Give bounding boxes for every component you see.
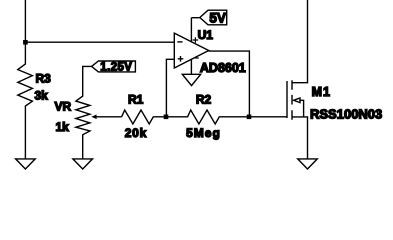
wire: V+ supply	[190, 18, 192, 43]
flag 5V wire	[191, 17, 199, 19]
flag 5V	[200, 10, 227, 25]
wire: node B to gate	[249, 116, 287, 118]
resistor R1	[122, 110, 166, 124]
wire: op-amp output	[209, 51, 250, 117]
svg-text:R3: R3	[36, 72, 52, 86]
potentiometer VR	[76, 90, 90, 159]
svg-text:M1: M1	[312, 85, 331, 99]
ground left	[16, 159, 36, 169]
transistor M1 channel segments	[291, 80, 293, 120]
op-amp V- pin marker	[195, 57, 199, 59]
transistor M1 source	[292, 117, 308, 159]
svg-text:5V: 5V	[209, 10, 226, 25]
svg-text:RSS100N03: RSS100N03	[310, 107, 382, 122]
ground M1	[298, 159, 318, 169]
svg-text:3k: 3k	[35, 89, 49, 103]
svg-text:20k: 20k	[125, 126, 147, 140]
svg-text:1k: 1k	[56, 120, 70, 134]
wire: V- to ground	[190, 59, 192, 75]
wire: node A up to op-amp + input	[166, 59, 174, 117]
transistor M1 drain	[292, 0, 308, 83]
transistor M1 bulk arrow	[294, 98, 304, 117]
node B junction dot	[247, 115, 252, 120]
svg-text:R2: R2	[196, 93, 212, 107]
svg-text:U1: U1	[198, 28, 214, 42]
ground op-amp	[182, 74, 200, 85]
wire: horizontal to op-amp inverting input	[25, 41, 174, 43]
svg-text:VR: VR	[55, 100, 72, 114]
op-amp U1 triangle	[174, 33, 208, 68]
svg-text:AD8601: AD8601	[200, 61, 246, 75]
VR wiper arrow	[91, 115, 121, 120]
svg-text:5Meg: 5Meg	[186, 126, 221, 140]
op-amp non-inverting input marker	[178, 56, 184, 62]
node: junction dot left	[23, 40, 28, 45]
svg-text:1.25V: 1.25V	[100, 62, 132, 74]
flag 1.25V	[92, 61, 136, 74]
ground VR	[73, 159, 93, 169]
svg-text:R1: R1	[128, 93, 144, 107]
wire: top-left vertical input	[24, 0, 26, 42]
op-amp V+ pin marker	[193, 37, 199, 43]
resistor R2	[166, 110, 249, 124]
flag 1.25V wire	[83, 66, 92, 90]
resistor R3	[18, 42, 33, 159]
op-amp inverting input marker	[177, 41, 182, 43]
node A junction dot	[164, 115, 169, 120]
transistor M1 gate bar	[286, 81, 288, 118]
